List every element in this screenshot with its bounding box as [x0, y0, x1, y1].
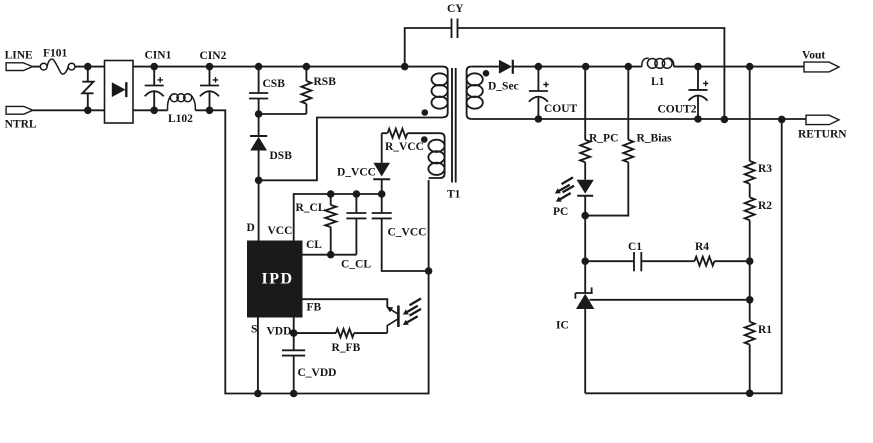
- svg-text:CY: CY: [447, 3, 464, 15]
- svg-text:COUT2: COUT2: [658, 104, 697, 116]
- capacitor COUT2: [689, 67, 709, 119]
- svg-text:LINE: LINE: [5, 50, 33, 62]
- wire NTRL to bridge: [33, 109, 105, 111]
- terminal NTRL: [6, 106, 33, 114]
- node R4 right: [746, 257, 754, 265]
- polarity dot auxiliary: [421, 136, 428, 143]
- node R_CL top: [327, 190, 335, 198]
- wire Vout rail right: [674, 66, 804, 68]
- svg-text:R3: R3: [758, 163, 772, 175]
- node CY right on return rail: [721, 116, 729, 124]
- node compensation: [581, 257, 589, 265]
- wire FB pin: [303, 299, 388, 307]
- wire REF: [590, 299, 750, 301]
- resistor R_VCC: [382, 129, 440, 138]
- node CSB top: [255, 63, 263, 71]
- capacitor CY: [405, 19, 725, 120]
- svg-text:Vout: Vout: [802, 50, 825, 62]
- node C_VDD ground: [290, 390, 298, 398]
- svg-text:PC: PC: [553, 206, 568, 218]
- transformer T1 core: [452, 68, 456, 183]
- resistor R_Bias: [585, 67, 633, 216]
- inductor L1: [642, 58, 674, 68]
- svg-text:CL: CL: [306, 239, 322, 251]
- svg-text:R1: R1: [758, 324, 772, 336]
- svg-text:CIN2: CIN2: [200, 50, 227, 62]
- optocoupler phototransistor: [386, 299, 421, 334]
- resistor R3: [745, 67, 755, 184]
- node C_VCC to aux ground: [425, 267, 433, 275]
- wire D pin: [258, 180, 260, 240]
- node R_PC top: [582, 63, 590, 71]
- svg-text:NTRL: NTRL: [5, 119, 37, 131]
- svg-text:IC: IC: [556, 320, 569, 332]
- wire RETURN rail: [471, 118, 806, 120]
- node RSB top: [303, 63, 311, 71]
- diode D_VCC: [373, 133, 390, 194]
- transformer T1 auxiliary winding: [428, 133, 444, 178]
- transformer T1 primary winding: [432, 67, 448, 118]
- resistor R_CL: [325, 194, 336, 255]
- node R1 ground: [746, 390, 754, 398]
- capacitor C_VCC: [372, 194, 429, 271]
- node CIN1 bottom: [150, 107, 158, 115]
- node top rail varistor: [84, 63, 92, 71]
- svg-text:R2: R2: [758, 200, 772, 212]
- terminal Vout: [804, 62, 839, 72]
- svg-text:R_PC: R_PC: [589, 133, 618, 145]
- node clamp bottom: [255, 110, 263, 118]
- varistor: [82, 67, 93, 111]
- svg-text:S: S: [251, 324, 257, 336]
- svg-text:F101: F101: [43, 48, 68, 60]
- wire secondary ground rail: [585, 119, 782, 393]
- svg-text:C1: C1: [628, 241, 642, 253]
- node PC cathode: [581, 212, 589, 220]
- capacitor C_CL: [346, 194, 366, 255]
- svg-text:RSB: RSB: [314, 76, 337, 88]
- resistor R_FB: [294, 329, 388, 337]
- wire clamp bottom: [259, 113, 307, 115]
- node R_CL bottom on CL line: [327, 251, 335, 259]
- resistor R4: [695, 257, 750, 266]
- wire bottom rail bridge to L102: [133, 109, 168, 111]
- node R_Bias top: [625, 63, 633, 71]
- svg-text:C_VDD: C_VDD: [298, 367, 337, 379]
- terminal RETURN: [806, 115, 839, 124]
- transformer T1 secondary winding: [467, 67, 483, 119]
- capacitor CSB: [249, 67, 268, 114]
- wire CL pin: [303, 254, 357, 256]
- wire L102 to CIN2 and down to primary ground rail: [195, 110, 428, 393]
- wire drain link to primary winding: [259, 118, 443, 181]
- node R3 top: [746, 63, 754, 71]
- svg-text:R_FB: R_FB: [332, 342, 361, 354]
- polarity dot secondary: [483, 70, 490, 77]
- svg-text:R_VCC: R_VCC: [385, 141, 424, 153]
- svg-text:C_VCC: C_VCC: [388, 227, 427, 239]
- bridge rectifier: [105, 61, 134, 124]
- node drain DSB anode: [255, 177, 263, 185]
- shunt regulator IC TL431: [575, 287, 594, 393]
- svg-text:L1: L1: [651, 76, 665, 88]
- IPD U1: [247, 241, 303, 318]
- diode DSB: [250, 114, 267, 180]
- capacitor C1: [585, 252, 694, 271]
- svg-text:DSB: DSB: [270, 150, 293, 162]
- wire VCC pin and VCC node line: [294, 194, 382, 241]
- polarity dot primary: [422, 109, 429, 116]
- LED PC of optocoupler: [555, 177, 594, 215]
- svg-text:IPD: IPD: [261, 271, 293, 288]
- node S ground: [254, 390, 262, 398]
- node CIN2 bottom: [206, 107, 214, 115]
- node D_VCC bottom: [378, 190, 386, 198]
- node CIN2 top: [206, 63, 214, 71]
- node COUT2 bottom: [694, 115, 702, 123]
- node COUT top: [535, 63, 543, 71]
- wire Vout rail left: [538, 66, 641, 68]
- svg-text:VCC: VCC: [268, 225, 293, 237]
- svg-text:D_Sec: D_Sec: [488, 81, 519, 93]
- node return right: [778, 116, 786, 124]
- resistor RSB: [301, 67, 311, 114]
- wire LINE to fuse: [33, 66, 41, 68]
- svg-text:R_Bias: R_Bias: [637, 133, 673, 145]
- wire top rail bridge to transformer: [133, 66, 443, 68]
- fuse F101: [40, 59, 75, 74]
- wire VDD pin: [293, 318, 295, 351]
- terminal LINE: [6, 63, 32, 71]
- node C_CL top: [353, 190, 361, 198]
- svg-text:C_CL: C_CL: [341, 259, 371, 271]
- resistor R2: [745, 184, 755, 322]
- wire PC node down: [584, 216, 586, 293]
- svg-text:D_VCC: D_VCC: [337, 167, 376, 179]
- svg-text:R_CL: R_CL: [296, 202, 326, 214]
- node COUT2 top: [694, 63, 702, 71]
- svg-text:CSB: CSB: [263, 78, 286, 90]
- svg-text:RETURN: RETURN: [798, 129, 847, 141]
- diode D_Sec: [499, 60, 539, 74]
- wire fuse to bridge: [75, 66, 105, 68]
- svg-text:T1: T1: [447, 189, 461, 201]
- svg-text:CIN1: CIN1: [145, 50, 172, 62]
- node CIN1 top: [150, 63, 158, 71]
- node bottom rail varistor: [84, 107, 92, 115]
- capacitor CIN1: [145, 67, 164, 111]
- node REF right: [746, 296, 754, 304]
- capacitor COUT: [529, 67, 549, 119]
- node VDD: [290, 329, 298, 337]
- capacitor CIN2: [200, 67, 219, 111]
- wire S pin: [257, 318, 259, 394]
- svg-text:D: D: [247, 222, 255, 234]
- node COUT bottom: [535, 115, 543, 123]
- svg-text:L102: L102: [168, 113, 193, 125]
- svg-text:R4: R4: [695, 241, 709, 253]
- svg-text:FB: FB: [307, 302, 322, 314]
- inductor L102: [168, 94, 196, 111]
- wire secondary lead to diode D_Sec: [471, 66, 499, 68]
- svg-text:VDD: VDD: [267, 326, 292, 338]
- resistor R1: [745, 322, 755, 394]
- node CY left on top rail: [401, 63, 409, 71]
- capacitor C_VDD: [282, 350, 305, 393]
- svg-text:COUT: COUT: [544, 103, 578, 115]
- resistor R_PC: [580, 67, 590, 180]
